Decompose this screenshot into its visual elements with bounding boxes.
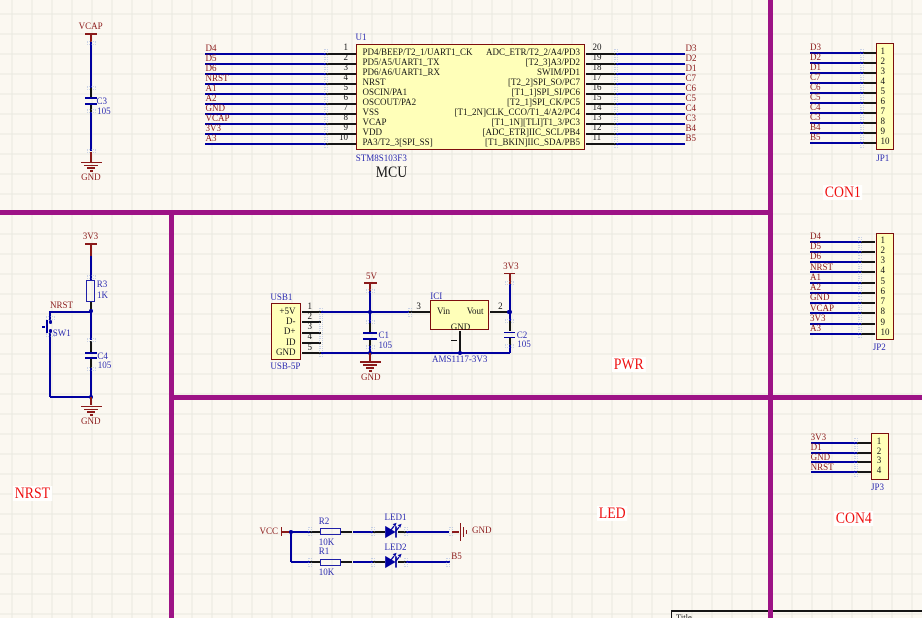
node junction	[89, 395, 93, 399]
pin	[310, 531, 321, 533]
wire	[90, 112, 92, 151]
pin 4	[326, 83, 356, 85]
wire net B4	[810, 132, 863, 134]
pin 14	[586, 113, 617, 115]
label PWR	[612, 357, 645, 372]
pin name PD6/A6/UART1_RX	[363, 68, 440, 77]
capacitor C3	[85, 97, 97, 99]
pin 13	[586, 123, 617, 125]
wire	[291, 561, 310, 563]
pin name ADC_ETR/T2_2/A4/PD3	[360, 48, 580, 57]
pin 3	[857, 461, 871, 463]
pin 10	[861, 333, 876, 335]
pin 7	[861, 302, 876, 304]
pin 8	[326, 123, 356, 125]
net label D1	[811, 443, 822, 452]
net label B4	[810, 123, 821, 132]
pin 4	[863, 82, 876, 84]
pin name VSS	[363, 108, 380, 117]
wire	[90, 256, 92, 281]
pin 2	[326, 63, 356, 65]
power 3V3	[83, 232, 99, 241]
pin 1	[857, 442, 871, 444]
wire	[50, 396, 91, 398]
net label B4	[686, 124, 697, 133]
pin	[373, 561, 386, 563]
wire net D5	[205, 63, 326, 65]
pin 18	[586, 73, 617, 75]
pin 3	[861, 261, 876, 263]
wire net D6	[205, 73, 326, 75]
wire	[90, 42, 92, 89]
pin name PD4/BEEP/T2_1/UART1_CK	[363, 48, 473, 57]
wire	[406, 531, 449, 533]
net label D2	[810, 53, 821, 62]
wire net GND	[205, 113, 326, 115]
node junction	[289, 530, 293, 534]
net label C7	[810, 73, 821, 82]
wire net C4	[810, 112, 863, 114]
pin 6	[326, 103, 356, 105]
pin name [T2_1]SPI_CK/PC5	[360, 98, 580, 107]
pin 8	[861, 312, 876, 314]
net label C5	[810, 93, 821, 102]
net label GND	[206, 104, 226, 113]
pin 10	[326, 143, 356, 145]
ground GND earth	[452, 531, 459, 533]
op-amp U1 MCU block	[356, 44, 585, 150]
net label A3	[810, 324, 821, 333]
wire net A1	[205, 93, 326, 95]
wire net D1	[616, 73, 685, 75]
wire net VCAP	[205, 123, 326, 125]
net label C5	[686, 94, 697, 103]
pin 20	[586, 53, 617, 55]
net label A1	[810, 273, 821, 282]
wire net A3	[810, 333, 861, 335]
pin 8	[863, 122, 876, 124]
wire	[290, 532, 292, 562]
wire	[509, 312, 511, 321]
wire net D1	[810, 72, 863, 74]
pin 5	[863, 92, 876, 94]
pin 1	[863, 52, 876, 54]
label CON4	[834, 511, 874, 526]
pin 7	[326, 113, 356, 115]
pin name [T1_1N][TLI]T1_3/PC3	[360, 118, 580, 127]
wire net C6	[810, 92, 863, 94]
pin	[398, 531, 407, 533]
pin 2	[490, 311, 507, 313]
wire net C7	[810, 82, 863, 84]
pin 19	[586, 63, 617, 65]
wire net D6	[810, 261, 861, 263]
wire	[90, 368, 92, 397]
net label A1	[206, 84, 217, 93]
pin	[90, 302, 92, 312]
net label D5	[810, 242, 821, 251]
wire net A3	[205, 143, 326, 145]
pin 1	[326, 53, 356, 55]
pin name +5V	[266, 307, 296, 316]
pin	[90, 88, 92, 97]
wire net C5	[616, 103, 685, 105]
net label C6	[686, 84, 697, 93]
regulator ICI AMS1117-3V3	[430, 300, 490, 331]
pin 2	[857, 452, 871, 454]
pin name OSCOUT/PA2	[363, 98, 417, 107]
pin 3	[302, 332, 322, 334]
net label D1	[686, 64, 697, 73]
pin 3	[863, 72, 876, 74]
wire net NRST	[810, 271, 861, 273]
wire net D2	[616, 63, 685, 65]
net label D6	[810, 252, 821, 261]
pin	[90, 105, 92, 112]
port VCC	[260, 527, 279, 536]
net label D2	[686, 54, 697, 63]
wire net C5	[810, 102, 863, 104]
net label C4	[686, 104, 697, 113]
net label D1	[810, 63, 821, 72]
pin name VDD	[363, 128, 383, 137]
power VCAP	[79, 22, 103, 31]
wire net B4	[616, 133, 685, 135]
pin name [T1_2N]CLK_CCO/T1_4/A2/PC4	[360, 108, 580, 117]
wire net 5V	[321, 311, 409, 313]
title block border	[671, 610, 922, 611]
wire	[291, 531, 310, 533]
pin 9	[863, 132, 876, 134]
net label D4	[206, 44, 217, 53]
pin 9	[326, 133, 356, 135]
pin 2	[863, 62, 876, 64]
pin 3	[326, 73, 356, 75]
wire net NRST	[811, 471, 857, 473]
net label NRST	[206, 74, 229, 83]
net label 3V3	[810, 314, 826, 323]
pin name [T1_BKIN]IIC_SDA/PB5	[360, 138, 580, 147]
net label C7	[686, 74, 697, 83]
connector JP2	[876, 233, 894, 340]
ground GND	[90, 152, 92, 162]
pin	[509, 338, 511, 345]
pin name OSCIN/PA1	[363, 88, 408, 97]
resistor R3	[86, 280, 95, 301]
net label B5	[686, 134, 697, 143]
wire	[49, 333, 51, 397]
pin 5	[302, 352, 322, 354]
switch SW1	[46, 320, 48, 334]
pin	[90, 359, 92, 368]
pin 5	[861, 282, 876, 284]
wire net D4	[205, 53, 326, 55]
net label GND	[810, 293, 830, 302]
pin name PD5/A5/UART1_TX	[363, 58, 440, 67]
net label B5	[451, 552, 462, 561]
pin 12	[586, 133, 617, 135]
connector JP3	[871, 433, 889, 480]
pin	[509, 321, 511, 331]
pin 1	[302, 311, 322, 313]
net label B5	[810, 133, 821, 142]
pin 7	[863, 112, 876, 114]
power 5V	[366, 272, 377, 281]
net label D6	[206, 64, 217, 73]
pin 15	[586, 103, 617, 105]
pin name [T2_3]A3/PD2	[360, 58, 580, 67]
net label D5	[206, 54, 217, 63]
capacitor C4	[85, 352, 97, 354]
wire net 3V3	[811, 442, 857, 444]
pin 6	[861, 292, 876, 294]
pin 9	[861, 323, 876, 325]
diode LED2	[383, 543, 413, 571]
ground GND	[90, 397, 92, 406]
node junction	[368, 310, 372, 314]
wire net A2	[205, 103, 326, 105]
pin	[369, 323, 371, 332]
net label C3	[810, 113, 821, 122]
wire net D5	[810, 251, 861, 253]
section divider horizontal H1	[0, 210, 773, 215]
pin 1 GND	[459, 331, 461, 353]
pin name [T1_1]SPI_SI/PC6	[360, 88, 580, 97]
wire net B5	[810, 142, 863, 144]
wire net B5	[406, 561, 450, 563]
pin 4	[861, 271, 876, 273]
pin 4	[302, 342, 322, 344]
wire net C3	[810, 122, 863, 124]
wire	[353, 531, 373, 533]
connector JP1	[876, 43, 894, 150]
pin 2	[861, 251, 876, 253]
net label VCAP	[206, 114, 230, 123]
wire net D1	[811, 452, 857, 454]
connector USB1 USB-5P	[271, 303, 301, 361]
wire	[507, 311, 510, 313]
ground GND	[369, 353, 371, 361]
node junction	[458, 351, 462, 355]
section divider vertical V1	[768, 0, 773, 618]
net label A2	[810, 283, 821, 292]
net label VCAP	[810, 304, 834, 313]
pin 11	[586, 143, 617, 145]
wire	[369, 346, 371, 353]
wire net GND	[810, 302, 861, 304]
pin name NRST	[363, 78, 386, 87]
pin	[341, 531, 352, 533]
pin	[369, 340, 371, 346]
wire	[49, 311, 51, 320]
wire	[90, 311, 92, 340]
pin name VCAP	[363, 118, 387, 127]
pin 10	[863, 142, 876, 144]
net label C6	[810, 83, 821, 92]
wire net C3	[616, 123, 685, 125]
pin 3	[409, 311, 430, 313]
pin	[373, 531, 386, 533]
pin 1	[861, 241, 876, 243]
pin name [ADC_ETR]IIC_SCL/PB4	[360, 128, 580, 137]
resistor R2	[320, 528, 341, 535]
pin	[398, 561, 407, 563]
pin 17	[586, 83, 617, 85]
wire net A2	[810, 292, 861, 294]
section divider horizontal H2	[169, 395, 922, 400]
wire net GND	[811, 461, 857, 463]
net label 3V3	[206, 124, 222, 133]
pin 2	[302, 321, 322, 323]
pin name D-	[266, 317, 296, 326]
wire net D2	[810, 62, 863, 64]
net label NRST	[810, 263, 833, 272]
pin	[90, 341, 92, 353]
wire net D4	[810, 241, 861, 243]
wire	[50, 311, 91, 313]
net label A3	[206, 134, 217, 143]
net label A2	[206, 94, 217, 103]
wire net C6	[616, 93, 685, 95]
label NRST	[13, 486, 52, 501]
wire	[509, 345, 511, 353]
label CON1	[823, 185, 863, 200]
wire net A1	[810, 282, 861, 284]
pin 4	[857, 471, 871, 473]
wire net VCAP	[810, 312, 861, 314]
title block label Title	[676, 613, 692, 618]
section divider vertical V2	[169, 210, 174, 618]
pin name GND	[266, 348, 296, 357]
pin name SWIM/PD1	[360, 68, 580, 77]
pin name D+	[266, 327, 296, 336]
net label NRST	[811, 463, 834, 472]
wire	[369, 312, 371, 323]
wire net GND	[321, 352, 510, 354]
net label GND	[811, 453, 831, 462]
label MCU	[374, 165, 409, 180]
wire net C7	[616, 83, 685, 85]
pin 5	[326, 93, 356, 95]
wire net B5	[616, 143, 685, 145]
power 3V3	[503, 262, 519, 271]
pin 6	[863, 102, 876, 104]
node junction	[507, 310, 511, 314]
resistor R1	[320, 559, 341, 566]
wire net NRST	[205, 83, 326, 85]
net label C3	[686, 114, 697, 123]
node junction	[368, 351, 372, 355]
net label C4	[810, 103, 821, 112]
wire	[353, 561, 373, 563]
wire net 3V3	[205, 133, 326, 135]
pin 16	[586, 93, 617, 95]
net label D3	[686, 44, 697, 53]
wire net C4	[616, 113, 685, 115]
capacitor C1	[363, 332, 377, 334]
wire net D3	[616, 53, 685, 55]
diode LED1	[383, 513, 413, 541]
pin name PA3/T2_3[SPI_SS]	[363, 138, 433, 147]
label LED	[597, 506, 627, 521]
node NRST	[89, 309, 93, 313]
net label 3V3	[811, 433, 827, 442]
pin	[310, 561, 321, 563]
net label D3	[810, 43, 821, 52]
capacitor C2	[504, 332, 515, 334]
net label D4	[810, 232, 821, 241]
wire net D3	[810, 52, 863, 54]
pin	[341, 561, 352, 563]
pin name [T2_2]SPI_SO/PC7	[360, 78, 580, 87]
wire net 3V3	[810, 323, 861, 325]
pin name ID	[266, 338, 296, 347]
